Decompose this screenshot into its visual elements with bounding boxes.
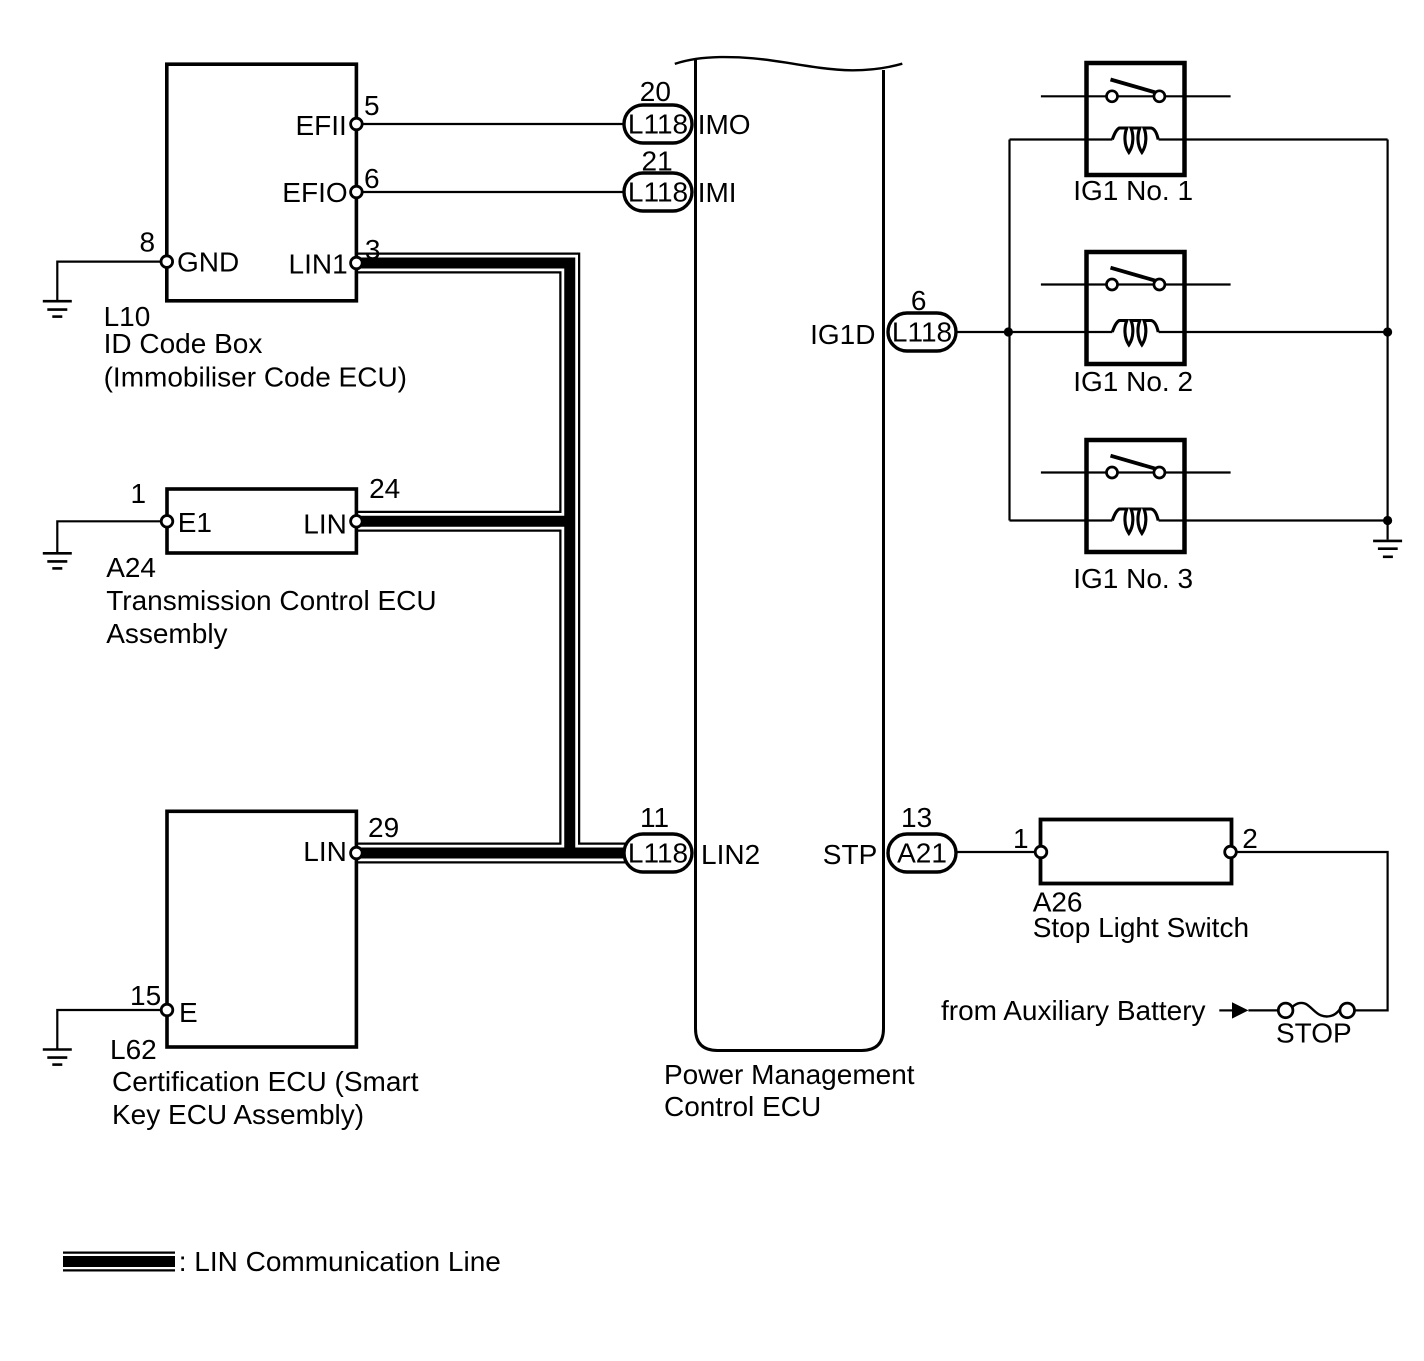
svg-text:from Auxiliary Battery: from Auxiliary Battery: [941, 995, 1206, 1026]
svg-text:3: 3: [365, 234, 381, 265]
connector oval A21 pin 13: [888, 834, 956, 872]
arrow from Auxiliary Battery: [1219, 1009, 1233, 1011]
svg-text:IMI: IMI: [698, 177, 737, 208]
connector oval L118 pin 11: [624, 834, 692, 872]
svg-text:ID Code Box: ID Code Box: [104, 328, 263, 359]
wire A26 pin2 to STOP fuse: [1231, 852, 1388, 1010]
relay2 switch contacts: [1107, 279, 1118, 290]
pin EFIO: [351, 186, 363, 198]
svg-text:IG1 No. 3: IG1 No. 3: [1073, 563, 1193, 594]
svg-text:L118: L118: [628, 177, 688, 208]
wire relay3 coil line: [1010, 519, 1113, 521]
svg-text:1: 1: [131, 478, 147, 509]
svg-text:A24: A24: [106, 552, 156, 583]
pin E1: [161, 516, 173, 528]
pin GND: [161, 256, 173, 268]
connector oval L118 pin 6 IG1D: [888, 313, 956, 351]
junction node IG1D bus right: [1383, 327, 1392, 336]
pin EFII: [351, 118, 363, 130]
pin E L62: [161, 1004, 173, 1016]
wire LIN2 branch core: [356, 848, 627, 859]
pin 1 A26: [1035, 846, 1047, 858]
svg-text:Key ECU Assembly): Key ECU Assembly): [112, 1099, 364, 1130]
svg-text:L118: L118: [628, 109, 688, 140]
svg-text:EFII: EFII: [296, 110, 347, 141]
wire EFII to L118 pin 20: [356, 123, 658, 125]
wire LIN2 branch outer: [356, 843, 627, 864]
wire right relay bus to ground: [1386, 140, 1388, 540]
box A26 Stop Light Switch: [1041, 820, 1232, 884]
svg-text:IG1D: IG1D: [810, 319, 875, 350]
relay1 switch contacts: [1107, 91, 1118, 102]
svg-text:STP: STP: [823, 839, 877, 870]
wire E1 A24 to ground: [57, 521, 167, 552]
svg-text:6: 6: [364, 163, 380, 194]
svg-text:21: 21: [642, 145, 673, 176]
svg-text:Control ECU: Control ECU: [664, 1091, 821, 1122]
svg-text:E1: E1: [178, 507, 212, 538]
relay3 switch contacts: [1107, 467, 1118, 478]
box A24 Transmission Control ECU: [167, 489, 356, 553]
connector oval L118 pin 21: [624, 173, 692, 211]
wire relay3 switch stubs: [1041, 471, 1231, 473]
ground G3 (L62 E): [43, 1050, 72, 1065]
relay3 switch blade: [1111, 456, 1157, 469]
svg-text:Power Management: Power Management: [664, 1059, 915, 1090]
wire LIN A24 branch outer: [356, 511, 569, 532]
svg-text:Certification ECU (Smart: Certification ECU (Smart: [112, 1066, 419, 1097]
Power Management Control ECU wavy top edge: [675, 57, 903, 70]
svg-text:IMO: IMO: [698, 109, 751, 140]
wire EFIO to L118 pin 21: [356, 191, 658, 193]
svg-text:: LIN Communication Line: : LIN Communication Line: [179, 1246, 501, 1277]
relay2 coil: [1112, 321, 1158, 345]
wire relay1 coil line: [1010, 138, 1113, 140]
box L62 Certification ECU: [167, 811, 356, 1047]
wire LIN A24 branch white gap: [356, 513, 569, 530]
svg-text:A21: A21: [897, 838, 947, 869]
relay2 switch blade: [1111, 268, 1157, 281]
pin 2 A26: [1225, 846, 1237, 858]
Power Management Control ECU outline: [696, 59, 884, 1051]
relay IG1 No.2 box: [1087, 252, 1185, 364]
fuse STOP: [1293, 1003, 1341, 1017]
box L10 ID Code Box: [167, 64, 357, 301]
svg-text:STOP: STOP: [1276, 1018, 1352, 1049]
wire relay1 switch stubs: [1041, 95, 1231, 97]
junction node right bus relay3: [1383, 516, 1392, 525]
pin LIN A24: [351, 516, 363, 528]
svg-text:L62: L62: [110, 1034, 157, 1065]
svg-text:GND: GND: [177, 247, 239, 278]
wire LIN1 trunk white gap: [356, 263, 569, 853]
svg-text:29: 29: [368, 812, 399, 843]
ground G1 (L10 GND): [43, 301, 72, 316]
ground G2 (A24 E1): [43, 553, 72, 568]
pin LIN L62: [351, 847, 363, 859]
svg-text:11: 11: [640, 802, 669, 833]
wire GND L10 to ground: [57, 262, 167, 300]
svg-text:(Immobiliser Code ECU): (Immobiliser Code ECU): [104, 362, 407, 393]
svg-text:24: 24: [369, 473, 400, 504]
wire left relay bus: [1008, 140, 1010, 521]
svg-text:IG1 No. 2: IG1 No. 2: [1073, 366, 1193, 397]
svg-text:LIN: LIN: [303, 836, 347, 867]
svg-text:1: 1: [1013, 823, 1029, 854]
svg-text:L118: L118: [628, 838, 688, 869]
legend LIN communication line sample: [63, 1252, 175, 1272]
svg-text:20: 20: [640, 76, 671, 107]
svg-text:LIN: LIN: [303, 509, 347, 540]
relay IG1 No.3 box: [1087, 440, 1185, 552]
svg-text:L118: L118: [892, 317, 952, 348]
pin LIN1: [351, 257, 363, 269]
svg-text:Assembly: Assembly: [106, 618, 227, 649]
svg-text:LIN2: LIN2: [701, 839, 760, 870]
svg-text:Transmission Control ECU: Transmission Control ECU: [106, 585, 436, 616]
relay IG1 No.1 box: [1087, 63, 1185, 175]
ground G4 (relay bus): [1373, 541, 1402, 557]
connector oval L118 pin 20: [624, 105, 692, 143]
relay1 switch blade: [1111, 80, 1157, 93]
svg-text:LIN1: LIN1: [289, 249, 348, 280]
svg-text:2: 2: [1242, 823, 1258, 854]
svg-text:15: 15: [130, 980, 161, 1011]
wire E L62 to ground: [57, 1010, 167, 1049]
wire LIN A24 branch core: [356, 516, 569, 527]
wire STP to A26: [956, 851, 1041, 853]
svg-text:Stop Light Switch: Stop Light Switch: [1033, 912, 1249, 943]
relay3 coil: [1112, 509, 1158, 533]
svg-text:6: 6: [911, 285, 927, 316]
wire relay2 switch stubs: [1041, 283, 1231, 285]
wire IG1D to relay bus: [956, 331, 1112, 333]
wire LIN2 branch white gap: [356, 845, 627, 862]
svg-text:13: 13: [901, 802, 932, 833]
svg-text:5: 5: [364, 90, 380, 121]
svg-text:E: E: [179, 997, 198, 1028]
relay1 coil: [1112, 128, 1158, 152]
wire LIN1 trunk core: [356, 263, 569, 853]
svg-text:IG1 No. 1: IG1 No. 1: [1073, 175, 1193, 206]
svg-text:8: 8: [140, 227, 156, 258]
LIN communication lines (thick): [356, 263, 627, 853]
wire LIN1 trunk outer: [356, 263, 569, 853]
junction node IG1D bus left: [1004, 327, 1013, 336]
svg-text:EFIO: EFIO: [282, 177, 347, 208]
